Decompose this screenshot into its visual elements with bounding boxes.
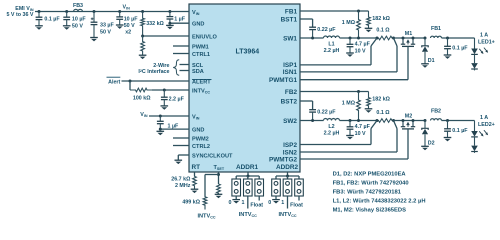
svg-text:D2: D2: [428, 141, 435, 147]
svg-text:182 kΩ: 182 kΩ: [372, 96, 390, 102]
svg-text:33 µF: 33 µF: [100, 23, 115, 29]
wire PWMTG1 gate: [300, 46, 408, 79]
node I2C brace: [173, 60, 179, 75]
node INTVCC terminal TSET: [197, 213, 215, 219]
wire SYNC/CLKOUT stub: [178, 155, 189, 160]
svg-text:VIN: VIN: [140, 112, 148, 118]
svg-text:2 MHz: 2 MHz: [175, 183, 191, 189]
wire GND pin 1: [168, 22, 189, 25]
resistor R 182k FB1 bottom: [367, 11, 391, 28]
svg-text:1 MΩ: 1 MΩ: [342, 20, 356, 26]
wire PWMTG2 gate: [300, 129, 408, 159]
svg-text:100 kΩ: 100 kΩ: [133, 95, 151, 101]
svg-text:1 A: 1 A: [480, 33, 488, 39]
svg-text:ISN1: ISN1: [283, 69, 298, 76]
capacitor C 1uF VCC1: [167, 12, 186, 24]
svg-text:SDA: SDA: [192, 69, 204, 75]
wire PWM1 stub: [173, 45, 189, 47]
ground D1: [421, 64, 429, 68]
node LED1+ output label: [478, 33, 495, 46]
svg-text:4.7 µF: 4.7 µF: [355, 124, 371, 130]
svg-text:BST1: BST1: [281, 16, 298, 23]
svg-text:INTVCC: INTVCC: [239, 212, 257, 218]
wire SW1: [300, 37, 324, 40]
resistor R 1M FB2 top: [342, 92, 361, 121]
svg-text:M2: M2: [405, 114, 412, 120]
svg-text:FB3: FB3: [73, 3, 83, 9]
capacitor C 0.1uF input: [35, 12, 60, 30]
svg-text:PWMTG2: PWMTG2: [269, 156, 297, 163]
node BOM text block: [333, 171, 426, 213]
connector jumper header ADDR1 pos1: [244, 179, 253, 196]
resistor R 0.1 ohm sense ch1: [376, 28, 396, 40]
svg-text:I2C Interface: I2C Interface: [138, 69, 169, 75]
capacitor C 10uF 50V x2: [116, 12, 138, 36]
capacitor C 1uF VCC2: [157, 116, 179, 129]
svg-text:10 V: 10 V: [355, 131, 366, 137]
wire FB2: [300, 90, 369, 93]
wire input rail: [35, 11, 189, 13]
wire ISN1: [300, 38, 397, 72]
node rail junction dots: [38, 10, 172, 13]
svg-text:50 V: 50 V: [124, 23, 135, 29]
ground TSET: [215, 194, 223, 198]
wire FB1: [300, 10, 369, 13]
node LED2+ output label: [478, 115, 495, 128]
connector jumper header ADDR2 float: [295, 179, 304, 196]
svg-text:LED2+: LED2+: [478, 122, 495, 128]
wire ADDR1 bus: [236, 172, 259, 179]
resistor R 1M FB1 top: [342, 11, 361, 38]
connector jumper header ADDR1 float: [255, 179, 264, 196]
connector jumper header ADDR1 pos0: [232, 179, 241, 196]
svg-text:SYNC/CLKOUT: SYNC/CLKOUT: [192, 153, 233, 159]
svg-text:0.1 Ω: 0.1 Ω: [376, 110, 390, 116]
IC bottom pin labels: [192, 164, 299, 171]
IC right pin labels: [269, 8, 297, 163]
ground D2: [421, 146, 429, 150]
svg-text:PWMTG1: PWMTG1: [269, 77, 297, 84]
node VIN2 label: [140, 112, 148, 118]
svg-text:ISN2: ISN2: [283, 149, 298, 156]
wire SCL stub: [180, 64, 190, 66]
connector jumper header ADDR2 pos0: [272, 179, 281, 196]
svg-text:GND: GND: [192, 22, 204, 28]
svg-text:10 µF: 10 µF: [124, 16, 139, 22]
ground ADDR2 pos0: [268, 196, 279, 206]
svg-text:D1, D2: NXP PMEG2010EA: D1, D2: NXP PMEG2010EA: [333, 171, 407, 177]
LED D LED1 string: [471, 38, 488, 70]
ground UVLO divider: [139, 55, 147, 59]
capacitor C 0.1uF output ch2: [444, 121, 469, 142]
svg-text:Float: Float: [290, 203, 303, 209]
svg-text:499 kΩ: 499 kΩ: [182, 199, 200, 205]
resistor R 100k ALERT pull-up: [130, 88, 152, 101]
wire CTRL2 stub: [173, 145, 189, 147]
svg-text:PWM1: PWM1: [192, 44, 209, 50]
resistor R TSET lower: [217, 184, 221, 194]
connector jumper header ADDR2 pos1: [283, 179, 292, 196]
svg-text:INTVCC: INTVCC: [278, 212, 296, 218]
svg-text:Alert: Alert: [108, 79, 120, 85]
svg-text:2.2 µF: 2.2 µF: [169, 97, 185, 103]
svg-text:ADDR2: ADDR2: [276, 164, 298, 171]
svg-text:0.1 µF: 0.1 µF: [452, 128, 468, 134]
capacitor C 33uF 50V polarized: [90, 12, 114, 42]
svg-text:0: 0: [268, 200, 271, 206]
wire ISP2: [300, 121, 377, 145]
svg-text:2.2 µH: 2.2 µH: [324, 131, 340, 137]
capacitor C 0.22uF BST1: [309, 27, 336, 38]
resistor R 182k FB2 bottom: [367, 92, 391, 109]
wire ALERT: [122, 80, 190, 83]
svg-text:SW1: SW1: [283, 35, 297, 42]
svg-text:FB3: Würth 74279220181: FB3: Würth 74279220181: [333, 189, 402, 195]
op-amp U1 LT3964 LED driver IC body: [189, 4, 300, 172]
wire PWM2 stub: [173, 137, 189, 139]
IC left pin labels: [192, 10, 233, 160]
svg-text:1 MΩ: 1 MΩ: [342, 101, 356, 107]
svg-text:26.7 kΩ: 26.7 kΩ: [171, 176, 191, 182]
svg-text:332 kΩ: 332 kΩ: [146, 21, 164, 27]
ground ADDR1 pos0: [229, 196, 240, 206]
diode D1 schottky: [422, 37, 435, 65]
svg-text:0.1 Ω: 0.1 Ω: [376, 28, 390, 34]
capacitor C 10uF 50V input: [63, 12, 87, 30]
svg-text:SW2: SW2: [283, 118, 297, 125]
svg-text:GND: GND: [192, 127, 204, 133]
svg-text:RT: RT: [192, 164, 201, 171]
svg-text:0.1 µF: 0.1 µF: [44, 16, 60, 22]
capacitor C 0.1uF output ch1: [444, 38, 469, 59]
ground RT: [191, 189, 199, 193]
ground 182k FB1: [365, 28, 373, 32]
capacitor C 2.2uF INTVCC: [161, 90, 185, 110]
svg-text:FB2: FB2: [431, 108, 441, 114]
node EMI VIN input label: [6, 6, 33, 18]
svg-text:Float: Float: [250, 203, 263, 209]
svg-text:10 V: 10 V: [355, 48, 366, 54]
svg-text:EN/UVLO: EN/UVLO: [192, 34, 218, 40]
wire TSET node: [205, 172, 220, 184]
resistor R 499k TSET: [182, 175, 207, 210]
svg-text:PWM2: PWM2: [192, 136, 209, 142]
capacitor C 4.7uF 10V ch2: [346, 121, 370, 140]
wire CTRL1 stub: [173, 53, 189, 55]
svg-text:INTVCC: INTVCC: [197, 213, 215, 219]
svg-text:VIN: VIN: [123, 4, 131, 10]
svg-text:182 kΩ: 182 kΩ: [372, 16, 390, 22]
wire SW1 output node: [340, 37, 379, 40]
capacitor C 4.7uF 10V ch1: [346, 38, 370, 57]
wire ISP1: [300, 38, 377, 65]
inductor L2 2.2uH: [324, 119, 340, 137]
svg-text:2.2 µH: 2.2 µH: [324, 48, 340, 54]
resistor R 0.1 ohm sense ch2: [376, 110, 396, 122]
svg-text:LED1+: LED1+: [478, 39, 495, 45]
svg-text:M1: M1: [405, 31, 412, 37]
wire ADDR2 float stub: [290, 196, 303, 209]
transistor M2: [394, 114, 426, 129]
svg-text:10 µF: 10 µF: [72, 16, 87, 22]
ground GND pin 1: [166, 25, 174, 29]
resistor R 26.7k RT: [171, 172, 196, 189]
node Alert terminal label: [107, 77, 121, 85]
svg-text:50 V: 50 V: [72, 23, 83, 29]
resistor R UVLO bottom: [141, 36, 145, 55]
svg-text:D1: D1: [428, 58, 435, 64]
capacitor C 0.22uF BST2: [309, 109, 336, 120]
wire GND pin 2: [159, 128, 189, 131]
node 2-wire I2C interface label: [138, 63, 169, 75]
svg-text:0.22 µF: 0.22 µF: [317, 27, 336, 33]
svg-text:L1: L1: [328, 42, 334, 48]
wire INTVCC: [152, 89, 189, 92]
svg-text:BST2: BST2: [281, 98, 298, 105]
svg-text:FB2: FB2: [285, 89, 298, 96]
node VIN label: [123, 4, 131, 10]
diode D2 schottky: [422, 119, 435, 147]
ground GND pin 2: [157, 131, 165, 135]
wire ADDR2 bus: [276, 172, 299, 179]
svg-text:FB1: FB1: [285, 8, 298, 15]
svg-text:0.22 µF: 0.22 µF: [317, 109, 336, 115]
wire ALERT to pull-up: [129, 81, 131, 90]
svg-text:5 V to 36 V: 5 V to 36 V: [6, 12, 33, 18]
wire output ch1: [442, 37, 475, 40]
wire EN/UVLO: [141, 35, 189, 38]
svg-text:M1, M2: Vishay Si2365EDS: M1, M2: Vishay Si2365EDS: [333, 207, 406, 213]
wire output ch2: [442, 119, 475, 122]
wire SDA stub: [180, 70, 190, 72]
svg-text:1: 1: [242, 200, 245, 206]
wire ISN2: [300, 121, 397, 153]
ferrite bead FB1 output: [431, 26, 442, 38]
svg-text:CTRL2: CTRL2: [192, 144, 210, 150]
wire VIN2: [149, 115, 189, 118]
ferrite bead FB2 output: [431, 108, 442, 120]
svg-text:1 A: 1 A: [480, 115, 488, 121]
wire SW2: [300, 119, 324, 122]
svg-text:4.7 µF: 4.7 µF: [355, 42, 371, 48]
svg-text:1 µF: 1 µF: [174, 17, 186, 23]
ground 182k FB2: [365, 109, 373, 113]
svg-text:L1, L2: Würth 74438323022 2.2: L1, L2: Würth 74438323022 2.2 µH: [333, 198, 426, 204]
wire ADDR1 pos1 INTVCC: [239, 196, 257, 218]
svg-text:0.1 µF: 0.1 µF: [452, 46, 468, 52]
svg-text:L2: L2: [328, 124, 334, 130]
svg-text:x2: x2: [125, 30, 131, 36]
svg-text:1: 1: [281, 200, 284, 206]
svg-text:ISP1: ISP1: [283, 62, 297, 69]
svg-text:50 V: 50 V: [100, 30, 111, 36]
resistor R 332k UVLO top: [141, 12, 165, 37]
svg-text:CTRL1: CTRL1: [192, 52, 210, 58]
svg-text:FB1, FB2: Würth 742792040: FB1, FB2: Würth 742792040: [333, 180, 409, 186]
ground SYNC/CLKOUT: [175, 160, 183, 164]
svg-text:ALERT: ALERT: [192, 79, 211, 85]
inductor L1 2.2uH: [324, 36, 340, 54]
wire ADDR1 float stub: [250, 196, 263, 209]
svg-text:0: 0: [229, 200, 232, 206]
transistor M1: [394, 31, 426, 46]
svg-text:ADDR1: ADDR1: [236, 164, 258, 171]
wire BST1: [300, 19, 313, 27]
ferrite bead FB3: [73, 3, 83, 12]
wire BST2: [300, 101, 313, 110]
wire SW2 output node: [340, 119, 379, 122]
svg-text:LT3964: LT3964: [236, 49, 260, 56]
wire ADDR2 pos1 INTVCC: [278, 196, 296, 218]
svg-text:ISP2: ISP2: [283, 142, 297, 149]
LED D LED2 string: [471, 121, 488, 153]
svg-text:FB1: FB1: [431, 26, 441, 32]
svg-text:2-Wire: 2-Wire: [153, 63, 169, 69]
